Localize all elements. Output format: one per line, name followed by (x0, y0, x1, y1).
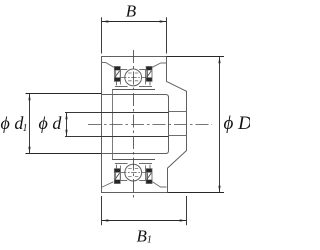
seal upper-right bottom cap (146, 78, 151, 82)
seal lower-right edge (147, 173, 149, 180)
inner ring race lines upper (115, 86, 152, 88)
dimension phi-D extension top (167, 56, 225, 58)
phi-d arrow up (65, 113, 67, 120)
seal groove line lower-left (102, 182, 114, 188)
ball upper centerline horizontal (121, 77, 146, 79)
raceway shoulders lower (121, 166, 146, 181)
svg-text:B1: B1 (137, 227, 152, 246)
seal groove line upper-right (152, 63, 166, 67)
inner ring bottom face upper (112, 89, 155, 91)
seal upper-right edge (147, 71, 149, 78)
bulge inner line bottom (169, 135, 187, 137)
svg-text:ϕ d1: ϕ d1 (1, 113, 28, 134)
dimension B extension lines (102, 17, 167, 53)
dimension phi-d1 line (29, 94, 31, 154)
outer ring bore lines lower (120, 180, 146, 182)
seal upper-left bottom cap (115, 78, 120, 82)
seal lower-left lip (115, 165, 117, 169)
seal upper-right outline (146, 67, 152, 82)
dimension B arrow left (102, 20, 109, 22)
ball upper (125, 69, 142, 86)
seal lower-right top cap (146, 169, 151, 173)
seal lower-left hatch (115, 173, 119, 179)
dimension phi-d1 extension bottom (26, 153, 102, 155)
sleeve outline (102, 95, 169, 154)
dimension B1 arrow right (180, 219, 187, 221)
seal lower-left top cap (115, 169, 120, 173)
svg-text:B: B (126, 2, 137, 21)
horizontal centerline (88, 124, 212, 126)
seal upper-right hatch (147, 71, 151, 77)
seal upper-right lip (149, 81, 151, 85)
seal upper-left edge (115, 71, 117, 78)
bearing outer profile (102, 57, 187, 193)
ball lower (125, 164, 142, 181)
seal upper-left top cap (115, 67, 120, 71)
dimension phi-D extension bottom (168, 192, 225, 194)
inner ring top face lower (112, 159, 155, 161)
seal lower-left edge (115, 173, 117, 180)
seal lower-right bottom cap (146, 180, 151, 184)
seal upper-left hatch (115, 71, 119, 77)
seal lower-left outline (114, 169, 120, 184)
seal groove line upper-left (102, 63, 114, 68)
seal lower-right outline (146, 169, 152, 184)
seal groove line lower-right (152, 181, 167, 187)
seal upper-left outline (114, 67, 120, 82)
inner ring front face vertical (112, 90, 114, 160)
phi-D arrow down (218, 186, 220, 193)
dimension B1 line (102, 220, 187, 222)
ball lower shoulder dashes (128, 169, 138, 177)
outer ring bore lines upper (120, 69, 146, 71)
dimension B arrow right (160, 20, 167, 22)
ball lower centerline horizontal (121, 172, 146, 174)
bore line top (65, 112, 169, 114)
raceway shoulders upper (121, 70, 146, 85)
bulge inner line top (169, 111, 187, 113)
bore line bottom (65, 136, 169, 138)
dimension phi-d1 extension top (26, 93, 102, 95)
phi-d1 arrow down (28, 147, 30, 154)
inner ring race lines lower (115, 163, 152, 165)
svg-text:ϕ D: ϕ D (224, 113, 251, 134)
seal lower-left bottom cap (115, 180, 120, 184)
seal upper-left lip (115, 81, 117, 85)
vertical centerline through balls (133, 50, 135, 199)
dimension phi-d line with arrows (66, 113, 68, 137)
phi-D arrow up (218, 57, 220, 64)
dimension phi-D line (219, 57, 221, 193)
dimension B1 arrow left (102, 219, 109, 221)
phi-d1 arrow up (28, 94, 30, 101)
dimension B1 extension lines (102, 196, 187, 225)
dimension B line (102, 21, 167, 23)
ball upper shoulder dashes (128, 73, 138, 81)
phi-d arrow down (65, 130, 67, 137)
seal lower-right hatch (147, 173, 151, 179)
seal upper-right top cap (146, 67, 151, 71)
svg-text:ϕ d: ϕ d (39, 113, 63, 133)
seal lower-right lip (149, 165, 151, 169)
